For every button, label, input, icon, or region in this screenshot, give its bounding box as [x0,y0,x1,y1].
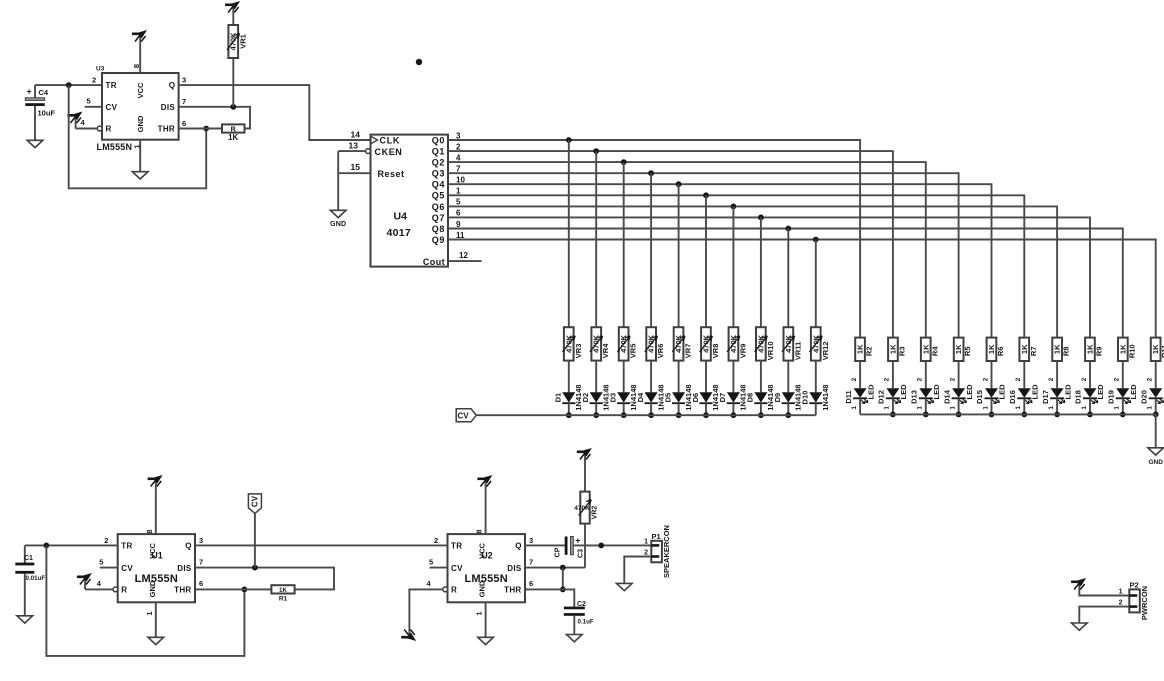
svg-text:PWRCON: PWRCON [1140,586,1149,620]
svg-text:D6: D6 [691,393,700,403]
svg-text:Q7: Q7 [432,213,445,223]
svg-text:470K: 470K [647,334,656,353]
wire Q9 net [448,240,1156,338]
svg-text:9: 9 [456,220,461,229]
svg-text:D3: D3 [609,393,618,403]
wire Q5 net [448,195,1024,337]
LED D16 [1008,377,1040,409]
svg-text:12: 12 [459,251,468,260]
svg-text:TR: TR [106,81,117,90]
wire Q1 net [448,151,893,338]
wire Q0 net [448,140,860,338]
svg-text:2: 2 [1147,377,1154,381]
svg-text:Q3: Q3 [432,169,445,179]
svg-text:+: + [27,86,32,96]
svg-text:6: 6 [529,579,533,588]
svg-text:15: 15 [351,162,361,172]
wire R7 to D16 [1023,361,1025,388]
diode D4 1N4148 [636,384,665,410]
svg-text:1K: 1K [987,344,996,354]
wire VR7 to D5 [678,361,680,393]
wire CV stub U1 [100,567,118,569]
svg-text:P1: P1 [652,532,661,541]
svg-text:1: 1 [145,611,154,615]
svg-text:R10: R10 [1127,344,1136,358]
node Q4/VR junction [676,181,682,187]
svg-text:LED: LED [1129,384,1138,400]
svg-text:1: 1 [1119,588,1123,595]
wire CV flag to DIS [254,513,256,567]
svg-text:D7: D7 [718,393,727,403]
wire THR [179,128,222,130]
wire D3 to CV bus [623,403,625,415]
svg-text:1K: 1K [279,587,287,594]
diode D9 1N4148 [773,384,802,410]
svg-text:Q: Q [169,81,175,90]
ground GND (U4) [330,210,346,228]
svg-text:U2: U2 [481,551,493,561]
power flag VCC (U2) [485,479,487,489]
wire P2 pin2 to GND [1079,607,1129,623]
svg-text:D1: D1 [554,393,563,403]
wire Q6 to VR9 [732,206,734,327]
svg-text:VR2: VR2 [592,506,599,520]
potentiometer VR1 470K [227,25,248,58]
svg-text:DIS: DIS [161,103,176,112]
node CV bus junction [758,412,764,418]
node Q7/VR junction [758,215,764,221]
wire [485,489,487,534]
connector P2 PWRCON [1119,580,1149,620]
resistor R8 1K [1052,338,1070,361]
svg-text:VR11: VR11 [793,342,802,360]
resistor R7 1K [1019,338,1037,361]
svg-text:LED: LED [932,384,941,400]
svg-text:4: 4 [81,118,86,127]
svg-text:3: 3 [529,536,533,545]
power flag (U1 reset pin) [77,573,113,589]
svg-text:2: 2 [917,377,924,381]
svg-text:D15: D15 [975,390,984,404]
wire CV bus [476,414,816,416]
wire Q6 net [448,206,1057,337]
svg-text:Q: Q [515,542,521,551]
svg-text:1K: 1K [1053,344,1062,354]
svg-text:1K: 1K [954,344,963,354]
svg-text:Q4: Q4 [432,180,445,190]
svg-text:CKEN: CKEN [375,147,403,157]
node CV bus junction [566,412,572,418]
svg-text:D2: D2 [581,393,590,403]
wire C3 to speaker [573,544,651,546]
svg-text:CV: CV [451,564,463,573]
resistor R 1K [222,124,245,141]
node Q0/VR junction [566,137,572,143]
svg-text:+: + [575,536,580,546]
svg-text:470K: 470K [574,505,590,512]
wire [139,42,141,73]
node DIS junction U2 [560,565,566,571]
ground (P2) [1072,623,1088,630]
svg-text:VR6: VR6 [656,344,665,359]
svg-text:DIS: DIS [507,564,522,573]
wire VR11 to D9 [787,361,789,393]
svg-text:R3: R3 [897,347,906,357]
node THR junction U2 [560,587,566,593]
wire DIS loop U1 [195,568,334,590]
svg-text:Q1: Q1 [432,147,445,157]
svg-text:P2: P2 [1130,580,1139,589]
node Q6/VR junction [731,204,737,210]
power flag (U3 reset pin) [67,112,97,129]
svg-text:2: 2 [884,377,891,381]
svg-text:VR1: VR1 [239,34,248,49]
svg-text:LED: LED [1063,384,1072,400]
svg-text:470K: 470K [592,334,601,353]
svg-text:1: 1 [949,406,956,410]
node Q2/VR junction [621,159,627,165]
wire VR1 top [232,12,234,25]
svg-text:1: 1 [456,187,461,196]
timer IC U3 LM555N [81,64,187,152]
svg-text:THR: THR [174,586,191,595]
svg-text:CV: CV [106,103,118,112]
wire Q3 to VR6 [650,173,652,327]
svg-text:Q0: Q0 [432,135,445,145]
svg-text:1: 1 [1081,406,1088,410]
resistor R1 1K [271,585,294,602]
svg-text:7: 7 [456,165,461,174]
svg-text:TR: TR [121,542,132,551]
potentiometer VR9 470K [727,327,747,360]
svg-text:R7: R7 [1029,347,1038,357]
svg-text:0.01uF: 0.01uF [26,575,46,582]
svg-text:1: 1 [1147,406,1154,410]
wire R3 to D12 [892,361,894,388]
wire VR4 to D2 [595,361,597,393]
svg-text:CV: CV [121,564,133,573]
svg-text:2: 2 [434,536,438,545]
wire D9 to CV bus [787,403,789,415]
wire VR12 to D10 [815,361,817,393]
svg-text:1: 1 [1048,406,1055,410]
svg-text:THR: THR [158,125,175,134]
wire DIS-THR link [562,568,564,590]
wire Reset [338,172,370,174]
LED D11 [844,377,876,409]
wire R4 to D13 [925,361,927,388]
label CV flag [456,409,476,422]
svg-text:1: 1 [1015,406,1022,410]
svg-text:D10: D10 [801,391,810,405]
svg-text:C2: C2 [577,601,586,608]
node LED bus junction [956,412,962,418]
node Q9/VR junction [813,237,819,243]
svg-text:D5: D5 [663,393,672,403]
node LED bus junction [923,412,929,418]
wire Q8 net [448,229,1123,338]
svg-text:1: 1 [475,611,484,615]
svg-text:1K: 1K [888,344,897,354]
svg-text:Cout: Cout [423,257,445,267]
svg-text:LED: LED [899,384,908,400]
svg-text:VR10: VR10 [766,342,775,361]
wire D2 to CV bus [595,403,597,415]
LED D19 [1107,377,1139,409]
svg-text:THR: THR [504,586,521,595]
node CV bus junction [731,412,737,418]
wire D7 to CV bus [732,403,734,415]
potentiometer VR6 470K [645,327,665,360]
svg-text:VR4: VR4 [601,343,610,358]
wire D12 to GND bus [892,398,894,414]
wire Q2 net [448,162,926,338]
svg-text:10: 10 [456,176,465,185]
wire Q7 to VR10 [760,217,762,327]
wire D4 to CV bus [650,403,652,415]
wire D11 to GND bus [859,398,861,414]
capacitor C1 [15,545,45,615]
svg-text:1: 1 [1114,406,1121,410]
svg-text:1: 1 [851,406,858,410]
svg-text:7: 7 [529,557,533,566]
wire VR9 to D7 [732,361,734,393]
node CV bus junction [785,412,791,418]
potentiometer VR11 470K [782,327,802,360]
node CV bus junction [703,412,709,418]
svg-text:D8: D8 [746,393,755,403]
svg-text:VCC: VCC [136,82,145,98]
svg-text:5: 5 [429,557,433,566]
svg-text:D16: D16 [1008,390,1017,404]
wire Q to 4017 CLK [179,85,371,140]
svg-text:1: 1 [644,538,648,545]
power flag (VR1 top) [232,5,234,13]
svg-text:1K: 1K [1151,344,1160,354]
wire Q U2 to C3 [525,544,565,546]
svg-text:1: 1 [982,406,989,410]
svg-text:3: 3 [456,131,461,140]
wire VR1 to DIS [232,58,234,107]
svg-text:5: 5 [87,97,91,106]
svg-text:13: 13 [349,140,359,150]
wire CV stub U3 [85,106,102,108]
svg-text:1K: 1K [856,344,865,354]
svg-text:470K: 470K [229,32,238,51]
svg-text:1: 1 [884,406,891,410]
svg-text:LED: LED [998,384,1007,400]
svg-text:R5: R5 [963,347,972,357]
label CV flag (U1) [248,494,261,514]
svg-text:4: 4 [427,579,432,588]
node THR junction U1 [242,587,248,593]
node LED bus junction [1054,412,1060,418]
wire VR2 to DIS [584,524,586,568]
svg-text:R: R [451,586,457,595]
wire VR8 to D6 [705,361,707,393]
svg-text:2: 2 [1081,377,1088,381]
svg-text:VR12: VR12 [821,342,830,361]
node LED bus junction [989,412,995,418]
wire DIS U2 [525,567,585,569]
LED D13 [910,377,942,409]
potentiometer VR12 470K [810,327,830,360]
svg-text:8: 8 [145,529,154,533]
svg-text:LM555N: LM555N [135,573,178,585]
svg-text:Q: Q [185,542,191,551]
ground (C2) [567,635,583,642]
svg-text:TR: TR [451,542,462,551]
node CV bus junction [593,412,599,418]
diode D8 1N4148 [746,384,775,410]
svg-text:Q2: Q2 [432,158,445,168]
resistor R9 1K [1085,338,1103,361]
svg-text:2: 2 [456,142,461,151]
potentiometer VR7 470K [672,327,692,360]
node LED bus junction [890,412,896,418]
node CV bus junction [621,412,627,418]
counter U4 4017 body [349,129,469,266]
svg-text:D12: D12 [877,390,886,404]
svg-text:CV: CV [457,412,469,421]
svg-text:470K: 470K [702,334,711,353]
svg-text:C3: C3 [578,549,585,558]
wire CKEN/Reset to GND [337,151,339,210]
wire D18 to GND bus [1089,398,1091,414]
svg-text:VR8: VR8 [711,344,720,359]
svg-text:LM555N: LM555N [465,573,508,585]
diode D1 1N4148 [554,384,583,410]
resistor R3 1K [888,338,906,361]
svg-text:D13: D13 [910,390,919,404]
wire CV stub U2 [430,567,448,569]
resistor R11 1K [1151,338,1164,361]
node THR junction [203,126,209,132]
svg-text:1: 1 [917,406,924,410]
wire R2 to D11 [859,361,861,388]
svg-text:U4: U4 [394,211,408,223]
node speaker junction [598,543,604,549]
resistor R10 1K [1118,338,1136,361]
svg-text:VR7: VR7 [684,344,693,359]
wire Q3 net [448,173,959,337]
svg-text:6: 6 [199,579,203,588]
wire Q4 to VR7 [678,184,680,327]
node LED bus junction [1153,412,1159,418]
node Q8/VR junction [785,226,791,232]
wire Q7 net [448,217,1090,337]
wire feedback loop TR-THR [69,85,207,188]
svg-text:R11: R11 [1160,345,1164,358]
wire R8 to D17 [1056,361,1058,388]
wire R6 to D15 [991,361,993,388]
svg-text:470K: 470K [564,334,573,353]
wire D8 to CV bus [760,403,762,415]
diode D7 1N4148 [718,384,747,410]
wire VR5 to D3 [623,361,625,393]
ground (U2 pin1) [478,602,494,644]
wire D13 to GND bus [925,398,927,414]
wire D17 to GND bus [1056,398,1058,414]
wire D14 to GND bus [958,398,960,414]
svg-text:VR3: VR3 [574,344,583,359]
capacitor C3 [555,536,585,558]
LED D20 [1139,377,1164,409]
svg-text:8: 8 [132,64,141,68]
svg-text:6: 6 [182,119,186,128]
ground (C4) [27,140,43,147]
svg-text:D11: D11 [844,390,853,403]
potentiometer VR5 470K [617,327,637,360]
wire CKEN [338,150,365,152]
svg-text:3: 3 [182,76,186,85]
svg-text:U1: U1 [151,551,163,561]
wire VR3 to D1 [568,361,570,393]
svg-text:Q6: Q6 [432,202,445,212]
wire R10 to D19 [1122,361,1124,388]
wire D20 to GND bus [1155,398,1157,414]
diode D3 1N4148 [609,384,638,410]
svg-text:LED: LED [1031,384,1040,400]
svg-text:Q5: Q5 [432,191,445,201]
svg-text:D14: D14 [942,389,951,404]
svg-text:CLK: CLK [380,136,401,146]
wire LED GND bus [860,414,1156,447]
diode D2 1N4148 [581,384,610,410]
potentiometer VR10 470K [755,327,775,360]
timer IC U2 LM555N [427,529,534,615]
svg-text:R: R [121,586,127,595]
svg-text:R1: R1 [279,596,288,603]
wire feedback loop U1 [46,545,244,656]
wire TR net [35,84,102,86]
wire Q1 to VR4 [595,151,597,327]
svg-text:D20: D20 [1139,390,1148,404]
wire Q9 to VR12 [815,240,817,328]
potentiometer VR2 470K [574,492,598,524]
node CV bus junction [648,412,654,418]
resistor R6 1K [987,338,1005,361]
svg-text:2: 2 [1119,600,1123,607]
wire VR10 to D8 [760,361,762,393]
svg-text:10uF: 10uF [38,109,56,118]
svg-text:1N4148: 1N4148 [821,384,830,410]
diode D6 1N4148 [691,384,720,410]
svg-text:470K: 470K [619,334,628,353]
wire Q U1 to TR U2 [195,544,448,546]
svg-text:D9: D9 [773,393,782,403]
svg-text:4: 4 [456,153,461,162]
svg-text:C4: C4 [39,88,49,97]
svg-text:U3: U3 [96,66,105,73]
svg-text:VR5: VR5 [629,344,638,359]
wire D10 to CV bus [815,403,817,415]
svg-text:14: 14 [351,129,361,139]
svg-text:Reset: Reset [378,169,405,179]
svg-text:DIS: DIS [177,564,192,573]
wire D1 to CV bus [568,403,570,415]
resistor R2 1K [855,338,873,361]
node DIS/VR1 junction [230,104,236,110]
svg-text:R2: R2 [865,347,874,357]
wire Q8 to VR11 [787,229,789,328]
LED D17 [1041,377,1073,409]
wire Cout stub [448,260,482,262]
ground (U1 pin1) [148,602,164,644]
svg-text:470K: 470K [784,334,793,353]
node DIS/CV junction [252,565,258,571]
svg-text:8: 8 [475,529,484,533]
